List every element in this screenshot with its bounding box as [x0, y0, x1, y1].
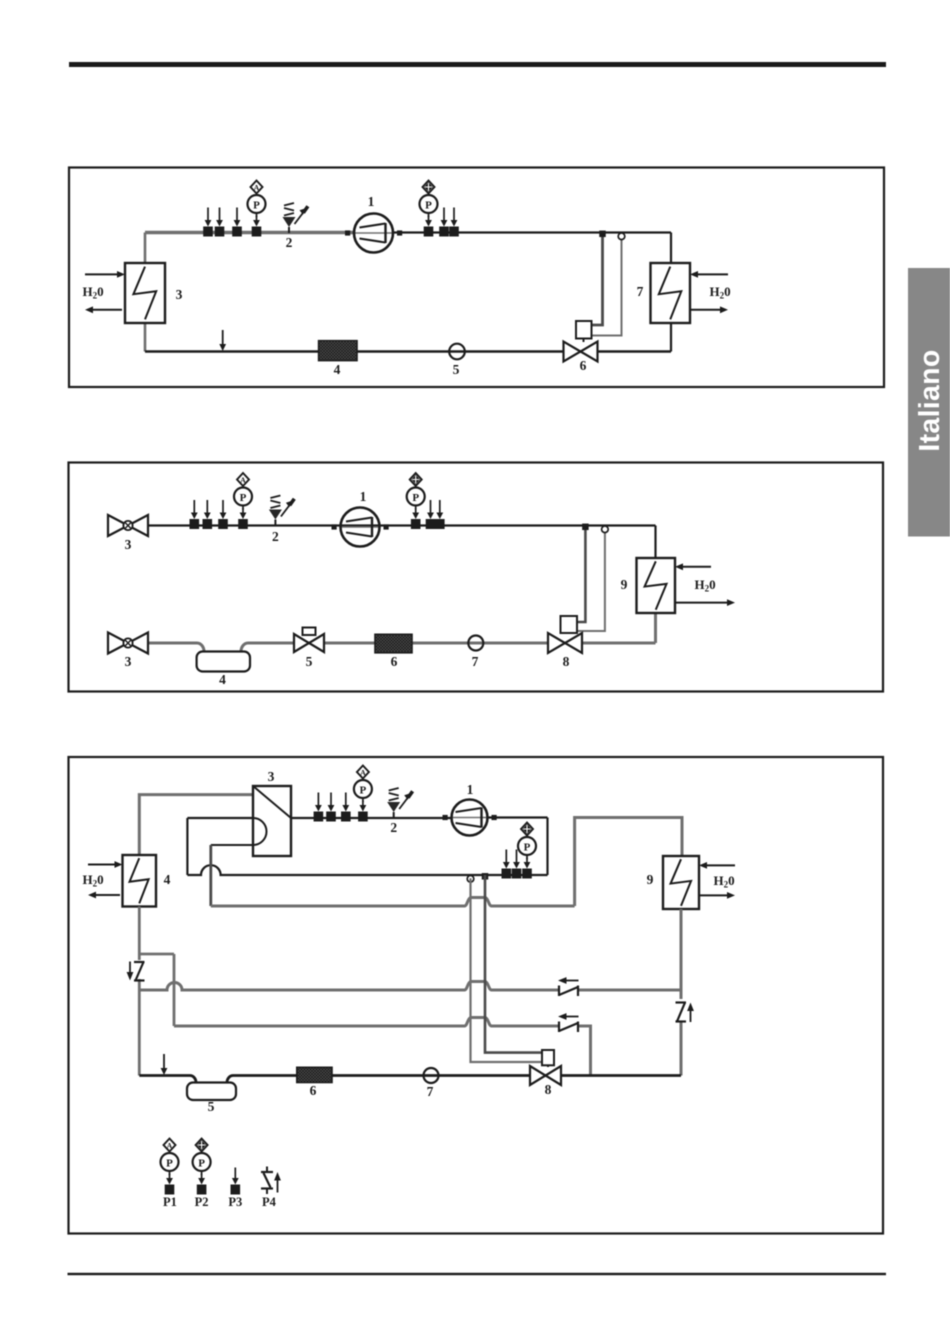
svg-text:3: 3 — [125, 537, 132, 552]
svg-text:7: 7 — [637, 284, 644, 299]
svg-text:9: 9 — [647, 872, 654, 887]
svg-text:1: 1 — [368, 194, 375, 209]
svg-text:A: A — [360, 768, 366, 777]
svg-text:P: P — [360, 784, 367, 796]
svg-text:Italiano: Italiano — [914, 349, 946, 451]
svg-text:4: 4 — [164, 872, 171, 887]
svg-text:3: 3 — [125, 654, 132, 669]
svg-text:5: 5 — [306, 654, 313, 669]
svg-text:P: P — [412, 492, 419, 504]
svg-text:5: 5 — [208, 1099, 215, 1114]
svg-text:7: 7 — [427, 1084, 434, 1099]
svg-text:7: 7 — [472, 654, 479, 669]
svg-text:9: 9 — [621, 577, 628, 592]
svg-text:P3: P3 — [228, 1195, 242, 1209]
svg-text:8: 8 — [545, 1082, 552, 1097]
svg-text:2: 2 — [272, 529, 279, 544]
svg-text:A: A — [240, 475, 246, 484]
svg-text:3: 3 — [176, 287, 183, 302]
svg-text:P1: P1 — [163, 1195, 177, 1209]
svg-text:P: P — [166, 1157, 173, 1169]
svg-text:P: P — [253, 199, 260, 211]
svg-text:A: A — [167, 1141, 173, 1150]
svg-text:1: 1 — [360, 489, 367, 504]
svg-text:6: 6 — [391, 654, 398, 669]
svg-text:6: 6 — [580, 358, 587, 373]
svg-text:8: 8 — [563, 654, 570, 669]
svg-text:2: 2 — [390, 820, 397, 835]
svg-text:P: P — [240, 492, 247, 504]
svg-text:A: A — [254, 183, 260, 192]
svg-text:4: 4 — [219, 672, 226, 687]
svg-text:5: 5 — [453, 362, 460, 377]
svg-text:P: P — [198, 1157, 205, 1169]
svg-text:1: 1 — [467, 782, 474, 797]
svg-text:P: P — [425, 199, 432, 211]
svg-text:P: P — [524, 841, 531, 853]
svg-text:P4: P4 — [262, 1195, 277, 1209]
svg-text:4: 4 — [334, 362, 341, 377]
svg-text:P2: P2 — [195, 1195, 209, 1209]
svg-text:6: 6 — [310, 1083, 317, 1098]
svg-text:2: 2 — [286, 235, 293, 250]
svg-text:3: 3 — [268, 769, 275, 784]
